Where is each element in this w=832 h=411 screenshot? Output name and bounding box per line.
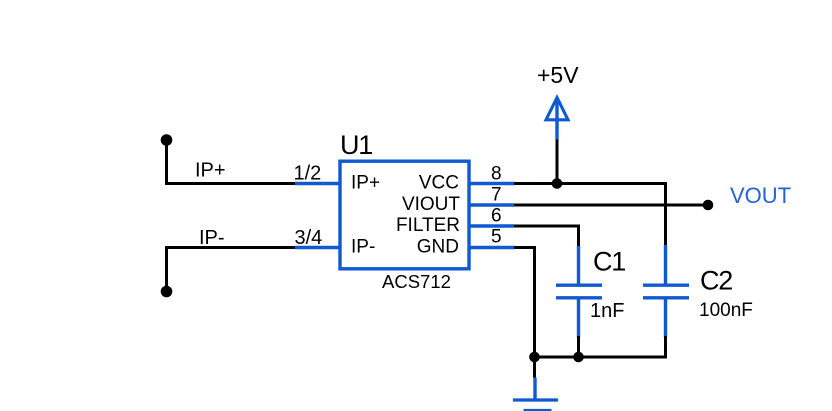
power +5V arrow <box>546 98 568 120</box>
svg-text:IP-: IP- <box>351 237 375 258</box>
svg-text:U1: U1 <box>340 130 372 160</box>
wire bottom ground rail <box>535 336 666 357</box>
capacitor C2 bottom lead <box>664 299 667 338</box>
terminal dot IP- <box>161 286 173 298</box>
wire FILTER to C1 <box>514 226 579 247</box>
ground symbol <box>533 378 536 401</box>
svg-text:C2: C2 <box>700 266 732 296</box>
svg-text:IP+: IP+ <box>195 160 226 182</box>
svg-text:100nF: 100nF <box>699 300 753 321</box>
capacitor C2 top lead <box>664 245 667 284</box>
pin 5 stub <box>469 246 514 249</box>
pin 8 stub <box>469 182 514 185</box>
terminal dot VOUT <box>703 200 714 211</box>
svg-text:7: 7 <box>491 185 502 206</box>
capacitor C1 plates <box>556 284 602 287</box>
capacitor C1 top lead <box>577 246 580 284</box>
svg-text:VCC: VCC <box>419 173 459 194</box>
wire GND drop from pin 5 <box>514 248 535 358</box>
junction dot ground C1 <box>573 352 584 363</box>
svg-text:1/2: 1/2 <box>294 163 322 185</box>
junction dot ground left <box>529 352 540 363</box>
svg-text:3/4: 3/4 <box>295 227 323 249</box>
wire IP+ input <box>167 139 296 184</box>
wire +5V drop <box>556 140 559 184</box>
IC U1 ACS712 box <box>340 161 469 269</box>
svg-text:GND: GND <box>417 237 459 258</box>
svg-text:IP-: IP- <box>199 227 225 249</box>
power +5V lead <box>555 98 558 140</box>
wire ground stem <box>533 357 536 378</box>
svg-text:5: 5 <box>491 227 502 248</box>
capacitor C1 bottom lead <box>577 299 580 338</box>
wire IP- input <box>167 248 296 293</box>
pin 3/4 stub <box>295 246 340 249</box>
pin 1/2 stub <box>295 182 340 185</box>
svg-text:1nF: 1nF <box>590 300 624 322</box>
svg-text:FILTER: FILTER <box>396 215 460 236</box>
junction dot VCC node <box>552 178 563 189</box>
svg-text:ACS712: ACS712 <box>382 271 451 292</box>
svg-text:+5V: +5V <box>537 62 579 88</box>
svg-text:IP+: IP+ <box>351 173 380 194</box>
pin 6 stub <box>469 224 514 227</box>
capacitor C2 plates <box>643 284 689 287</box>
terminal dot IP+ <box>161 134 173 146</box>
svg-text:C1: C1 <box>593 247 625 277</box>
svg-text:8: 8 <box>491 164 502 185</box>
svg-text:6: 6 <box>491 206 502 227</box>
svg-text:VIOUT: VIOUT <box>402 194 460 215</box>
pin 7 stub <box>469 203 514 206</box>
wire C1 bottom drop <box>577 336 580 357</box>
wire VCC rail to C2 <box>514 184 666 247</box>
svg-text:VOUT: VOUT <box>730 183 791 208</box>
wire VIOUT to VOUT <box>514 204 708 207</box>
